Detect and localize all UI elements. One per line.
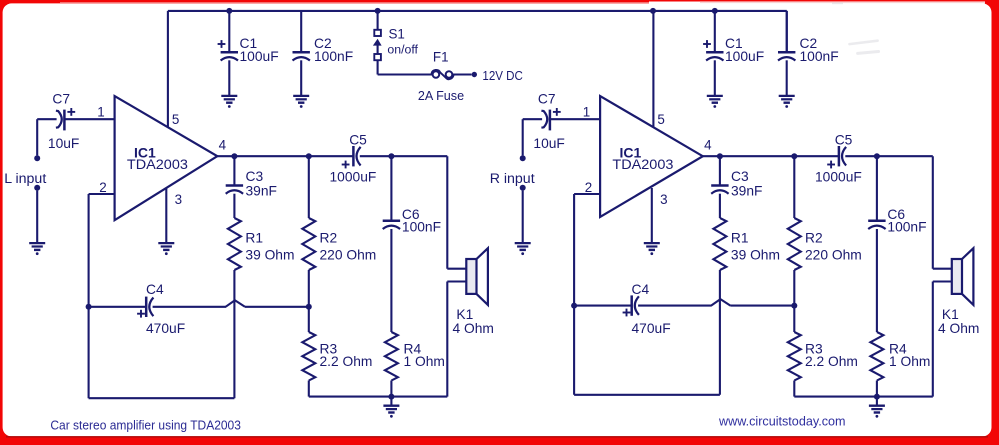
wire R3 bottom lead (R) <box>793 381 795 397</box>
svg-text:1 Ohm: 1 Ohm <box>889 354 930 369</box>
svg-text:1: 1 <box>583 104 590 119</box>
svg-text:5: 5 <box>657 112 664 127</box>
label K1 4 Ohm (R) <box>938 307 979 336</box>
node output/C3 (R) <box>717 153 723 159</box>
svg-text:1000uF: 1000uF <box>330 170 377 185</box>
label C4 470uF (R) <box>632 282 671 336</box>
label C3 39nF (R) <box>731 169 762 198</box>
wire R4 bottom lead (L) <box>390 381 392 397</box>
wire C4 to junction (L) <box>153 306 226 308</box>
svg-text:100nF: 100nF <box>314 49 353 64</box>
svg-text:R1: R1 <box>731 231 749 246</box>
svg-text:100nF: 100nF <box>800 49 839 64</box>
wire bus drop to C2 (R) <box>786 11 788 52</box>
svg-text:2A Fuse: 2A Fuse <box>418 89 464 103</box>
label pin 3 (L) <box>175 192 182 207</box>
ground (C1 L) <box>221 96 237 108</box>
label C3 39nF (L) <box>246 169 277 198</box>
switch S1 <box>373 11 433 75</box>
svg-text:3: 3 <box>660 192 667 207</box>
svg-text:C3: C3 <box>731 169 749 184</box>
label R2 220 Ohm (L) <box>320 231 377 263</box>
svg-text:12V DC: 12V DC <box>482 68 523 83</box>
ground (C2 R) <box>779 96 795 108</box>
label pin 1 (L) <box>97 104 104 119</box>
label pin 4 (R) <box>704 138 712 153</box>
wire R2 top lead (L) <box>308 156 310 218</box>
svg-text:R input: R input <box>490 171 535 187</box>
wire pin3 (R) <box>651 188 653 242</box>
svg-text:4: 4 <box>219 138 227 153</box>
svg-text:S1: S1 <box>389 26 405 41</box>
svg-text:R2: R2 <box>320 231 338 246</box>
ground (R4 L) <box>383 406 399 418</box>
svg-text:3: 3 <box>175 192 182 207</box>
svg-text:C3: C3 <box>246 169 264 184</box>
wire pin3 (L) <box>165 188 167 242</box>
wire bottom net (L) <box>309 282 448 397</box>
svg-text:2.2 Ohm: 2.2 Ohm <box>805 354 858 369</box>
svg-text:C4: C4 <box>146 282 164 297</box>
wire output net (L) <box>216 156 447 269</box>
svg-text:4: 4 <box>704 138 712 153</box>
node output/C6 (L) <box>388 153 394 159</box>
svg-text:TDA2003: TDA2003 <box>612 156 673 172</box>
svg-text:K1: K1 <box>942 307 959 322</box>
svg-text:100uF: 100uF <box>725 49 764 64</box>
label S1 on/off <box>387 26 418 56</box>
svg-text:470uF: 470uF <box>146 321 185 336</box>
label L input <box>4 171 46 187</box>
ground (pin3 R) <box>644 243 660 255</box>
label C6 100nF (L) <box>402 207 441 234</box>
node C4/R2/R3 (R) <box>791 303 797 309</box>
label pin 4 (L) <box>219 138 227 153</box>
svg-text:TDA2003: TDA2003 <box>127 156 188 172</box>
node output/C3 (L) <box>231 153 237 159</box>
label TDA2003 (L) <box>127 156 188 172</box>
svg-text:1 Ohm: 1 Ohm <box>404 354 445 369</box>
ground (R4 R) <box>869 406 885 418</box>
wire hop over R1 lead (L) <box>226 300 245 307</box>
wire R1 bottom (R) <box>719 270 721 395</box>
speaker K1 (R) <box>933 248 974 305</box>
caption title <box>50 417 241 432</box>
capacitor C5 (L) <box>342 146 361 168</box>
op-amp IC1 (L) <box>115 96 218 220</box>
node bus/C1 (R) <box>712 8 718 14</box>
capacitor C5 (R) <box>827 146 846 168</box>
svg-text:C5: C5 <box>835 132 853 147</box>
label TDA2003 (R) <box>612 156 673 172</box>
node bus/C1 (L) <box>226 8 232 14</box>
capacitor C3 (L) <box>226 156 243 218</box>
svg-text:F1: F1 <box>433 50 449 65</box>
node output/C6 (R) <box>874 153 880 159</box>
svg-text:R1: R1 <box>245 231 263 246</box>
border top white patch <box>60 2 985 4</box>
svg-text:C4: C4 <box>632 282 650 297</box>
wire feedback loop (R) <box>574 306 720 395</box>
capacitor C4 (L) <box>137 297 153 318</box>
resistor R2 (R) <box>788 218 801 270</box>
capacitor C1 (L) <box>218 11 238 95</box>
svg-text:470uF: 470uF <box>632 321 671 336</box>
label R input <box>490 171 535 187</box>
ground (C1 R) <box>707 96 723 108</box>
label C5 1000uF (L) <box>330 132 377 184</box>
svg-text:10uF: 10uF <box>48 136 79 151</box>
svg-text:Car stereo amplifier using TDA: Car stereo amplifier using TDA2003 <box>50 417 241 432</box>
ground (input L) <box>29 243 45 255</box>
node pin2/C4 (R) <box>571 303 577 309</box>
label R3 2.2 Ohm (R) <box>805 341 858 368</box>
wire pin2 (L) <box>89 194 115 307</box>
svg-text:4 Ohm: 4 Ohm <box>453 321 494 336</box>
svg-text:39nF: 39nF <box>246 183 277 198</box>
label R3 2.2 Ohm (L) <box>320 341 373 368</box>
resistor R1 (R) <box>713 218 726 270</box>
node R input terminal <box>520 119 526 242</box>
wire hop to R3 node (R) <box>730 305 794 307</box>
wire bottom net (R) <box>794 282 933 397</box>
label pin 5 (L) <box>172 112 179 127</box>
node ground junction (R) <box>874 394 880 405</box>
svg-text:C7: C7 <box>538 92 556 107</box>
label F1 <box>433 50 449 65</box>
wire R1 bottom (L) <box>233 270 235 398</box>
speaker K1 (L) <box>447 248 488 305</box>
wire hop over R1 lead (R) <box>711 299 730 306</box>
wire pin2 (R) <box>574 194 600 306</box>
label K1 4 Ohm (L) <box>453 307 494 336</box>
svg-text:2: 2 <box>585 180 592 195</box>
svg-text:100uF: 100uF <box>240 49 279 64</box>
wire R3 bottom lead (L) <box>308 381 310 397</box>
wire hop to R3 node (L) <box>245 306 309 308</box>
node output/R2 (L) <box>306 153 312 159</box>
label C2 100nF (L) <box>314 36 353 64</box>
artifact gray smudge <box>832 3 880 55</box>
wire pin5 riser (R) <box>652 11 654 130</box>
node pin2/C4 (L) <box>86 304 92 310</box>
wire pin2 node to C4 (L) <box>89 306 147 308</box>
resistor R1 (L) <box>228 218 241 270</box>
capacitor C2 (L) <box>293 11 310 95</box>
border bottom dark edge <box>6 436 988 437</box>
wire R3 top lead (L) <box>308 307 310 332</box>
label pin 3 (R) <box>660 192 667 207</box>
svg-text:on/off: on/off <box>387 43 418 57</box>
svg-text:39nF: 39nF <box>731 183 762 198</box>
label pin 2 (R) <box>585 180 592 195</box>
svg-text:39 Ohm: 39 Ohm <box>245 248 294 263</box>
label 2A Fuse <box>418 89 464 103</box>
wire C4 to junction (R) <box>638 305 711 307</box>
svg-text:39 Ohm: 39 Ohm <box>731 248 780 263</box>
svg-text:5: 5 <box>172 112 179 127</box>
node ground junction (L) <box>388 394 394 405</box>
label pin 1 (R) <box>583 104 590 119</box>
capacitor C7 (L) <box>37 108 114 130</box>
op-amp IC1 (R) <box>600 96 703 217</box>
wire output net (R) <box>702 156 933 269</box>
svg-text:2: 2 <box>99 180 106 195</box>
resistor R3 (R) <box>788 332 801 381</box>
svg-text:1: 1 <box>97 104 104 119</box>
label pin 5 (R) <box>657 112 664 127</box>
svg-text:C7: C7 <box>52 92 70 107</box>
node C4/R2/R3 (L) <box>306 304 312 310</box>
fuse F1 <box>432 70 472 79</box>
label pin 2 (L) <box>99 180 106 195</box>
ground (C2 L) <box>293 96 309 108</box>
svg-text:K1: K1 <box>456 307 473 322</box>
wire pin2 node to C4 (R) <box>574 305 632 307</box>
capacitor C6 (R) <box>868 156 885 332</box>
svg-text:R2: R2 <box>805 231 823 246</box>
node bus/S1 <box>375 8 381 14</box>
svg-text:100nF: 100nF <box>402 219 441 234</box>
svg-text:www.circuitstoday.com: www.circuitstoday.com <box>718 414 845 429</box>
svg-text:2.2 Ohm: 2.2 Ohm <box>320 354 373 369</box>
capacitor C6 (L) <box>383 156 400 332</box>
label IC1 (L) <box>134 145 156 161</box>
label C1 100uF (R) <box>725 36 764 64</box>
label R1 39 Ohm (R) <box>731 231 780 263</box>
resistor R4 (R) <box>870 332 883 381</box>
label R2 220 Ohm (R) <box>805 231 862 263</box>
label R4 1 Ohm (L) <box>404 341 445 368</box>
wire R3 top lead (R) <box>793 306 795 332</box>
node 12V DC terminal <box>472 72 477 77</box>
wire R4 bottom lead (R) <box>876 381 878 397</box>
label C6 100nF (R) <box>887 207 926 234</box>
wire R2 bottom lead (L) <box>308 270 310 307</box>
capacitor C7 (R) <box>523 108 600 130</box>
svg-text:1000uF: 1000uF <box>815 170 862 185</box>
ground (pin3 L) <box>158 243 174 255</box>
svg-text:4 Ohm: 4 Ohm <box>938 321 979 336</box>
label IC1 (R) <box>620 145 642 161</box>
resistor R3 (L) <box>302 332 315 381</box>
label R1 39 Ohm (L) <box>245 231 294 263</box>
svg-text:100nF: 100nF <box>887 219 926 234</box>
label C4 470uF (L) <box>146 282 185 336</box>
node L input terminal <box>34 119 40 242</box>
svg-text:L input: L input <box>4 171 46 187</box>
label 12V DC <box>482 68 523 83</box>
svg-text:C5: C5 <box>349 132 367 147</box>
label C2 100nF (R) <box>800 36 839 64</box>
node bus/right riser <box>650 8 656 14</box>
wire R2 top lead (R) <box>793 156 795 218</box>
wire pin5 riser (L) <box>167 11 169 130</box>
svg-text:220 Ohm: 220 Ohm <box>320 248 377 263</box>
svg-text:10uF: 10uF <box>533 136 564 151</box>
label C5 1000uF (R) <box>815 132 862 184</box>
resistor R2 (L) <box>302 218 315 270</box>
wire feedback loop (L) <box>89 307 235 398</box>
ground (input R) <box>515 243 531 255</box>
capacitor C1 (R) <box>703 11 723 95</box>
label C7 10uF (L) <box>48 92 79 151</box>
resistor R4 (L) <box>385 332 398 381</box>
node output/R2 (R) <box>791 153 797 159</box>
label C1 100uF (L) <box>240 36 279 64</box>
label R4 1 Ohm (R) <box>889 341 930 368</box>
caption website <box>718 414 845 429</box>
svg-text:220 Ohm: 220 Ohm <box>805 248 862 263</box>
wire R2 bottom lead (R) <box>793 270 795 306</box>
wire power bus <box>168 10 787 12</box>
label C7 10uF (R) <box>533 92 564 151</box>
capacitor C2 (R) <box>778 11 795 95</box>
capacitor C4 (R) <box>623 295 639 316</box>
capacitor C3 (R) <box>711 156 728 218</box>
